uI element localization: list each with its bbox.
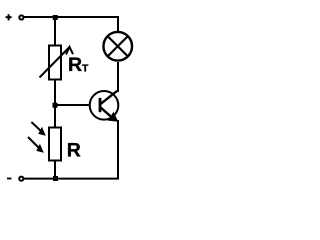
transistor emitter arrowhead [108, 112, 119, 122]
label - (negative supply) [7, 178, 12, 180]
lamp cross stroke 1 [108, 36, 128, 56]
lamp L1 (circle with X) [103, 32, 132, 61]
wire top rail [24, 17, 118, 32]
svg-text:R: R [68, 54, 82, 76]
resistor R (LDR body) [49, 128, 61, 161]
node middle junction dot [53, 103, 58, 108]
svg-text:R: R [67, 140, 81, 162]
light arrow 2 [28, 137, 39, 148]
wire middle node to R [54, 105, 56, 128]
thermistor arrow shaft [40, 47, 70, 78]
wire bottom rail [24, 120, 118, 179]
wire lamp to transistor collector [117, 62, 119, 92]
terminal + (open circle) [19, 15, 23, 19]
transistor Q1 circle [90, 91, 119, 120]
wire top rail to RT [54, 17, 56, 46]
wire RT to middle node [54, 79, 56, 106]
lamp cross stroke 2 [108, 36, 128, 56]
thermistor arrowhead [66, 47, 73, 55]
node bottom junction dot [53, 176, 58, 181]
resistor RT (thermistor body) [49, 46, 61, 80]
transistor base bar [99, 98, 102, 112]
light arrow 1 [31, 122, 42, 132]
label + (positive supply) [6, 16, 12, 18]
svg-text:T: T [82, 63, 89, 75]
wire R to bottom rail [54, 160, 56, 179]
wire base lead to transistor [55, 104, 100, 106]
transistor emitter lead [100, 107, 112, 118]
terminal - (open circle) [19, 177, 23, 181]
transistor collector lead [100, 91, 117, 104]
node top junction dot [53, 15, 58, 20]
